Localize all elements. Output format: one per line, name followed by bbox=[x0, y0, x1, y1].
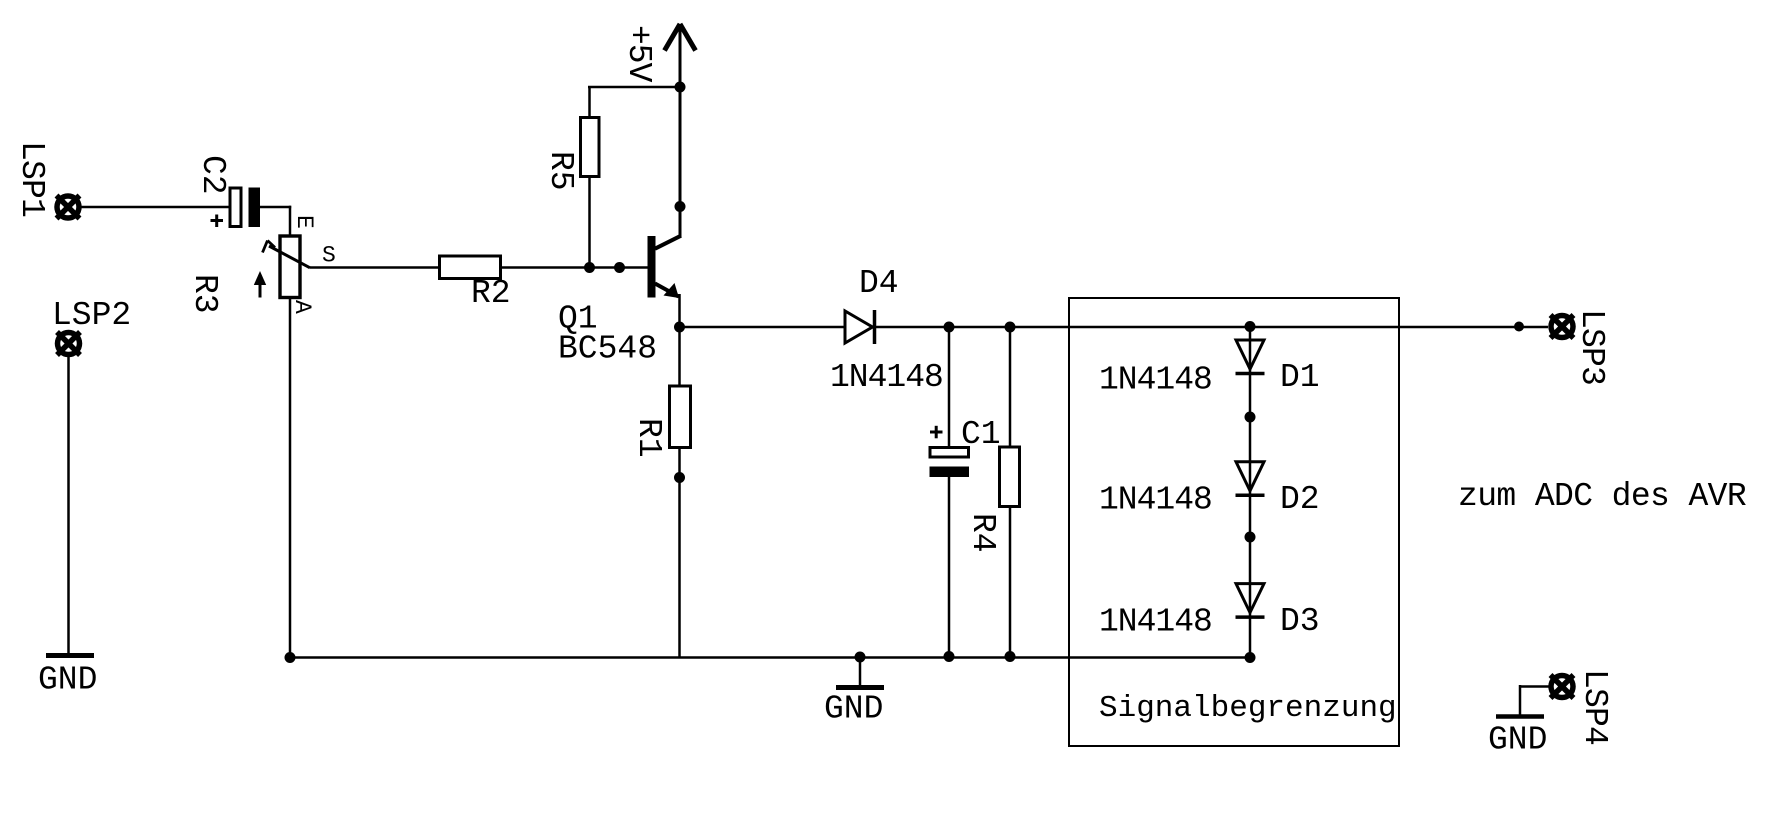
svg-text:1N4148: 1N4148 bbox=[1099, 604, 1212, 641]
wire C1 bottom bbox=[948, 476, 951, 658]
svg-text:GND: GND bbox=[38, 662, 97, 699]
junction dot rail left bbox=[285, 652, 296, 663]
terminal LSP3 bbox=[1551, 315, 1574, 338]
svg-text:zum ADC des AVR: zum ADC des AVR bbox=[1458, 478, 1746, 515]
wire C1 top bbox=[948, 327, 951, 448]
junction dot R4 bottom bbox=[1005, 651, 1016, 662]
wire R1 bottom to rail bbox=[678, 446, 681, 658]
wire C2 to R3 top bbox=[259, 206, 291, 209]
wire R4 bottom bbox=[1009, 505, 1012, 658]
junction dot D2-D3 bbox=[1245, 532, 1256, 543]
plus sign C2 bbox=[211, 215, 224, 228]
junction dot below R1 bbox=[674, 472, 685, 483]
wire node to D4 bbox=[680, 326, 846, 329]
wire D4 to LSP3 bbox=[875, 326, 1548, 329]
svg-text:GND: GND bbox=[1488, 722, 1547, 759]
supply +5V bbox=[665, 24, 696, 51]
svg-text:BC548: BC548 bbox=[558, 331, 657, 368]
junction dot D3 bottom bbox=[1245, 652, 1256, 663]
wire diode chain bbox=[1249, 327, 1252, 658]
svg-text:D3: D3 bbox=[1280, 603, 1320, 640]
wire R3 wiper to R2 bbox=[310, 266, 440, 269]
junction dot GND stub bbox=[855, 652, 866, 663]
junction dot collector bbox=[675, 201, 686, 212]
junction dot R4 top bbox=[1005, 322, 1016, 333]
wire +5V down to Q1 collector bbox=[679, 26, 682, 237]
wire R1 top bbox=[678, 327, 681, 387]
svg-text:D4: D4 bbox=[859, 265, 899, 302]
wire R4 top bbox=[1009, 327, 1012, 448]
junction dot base2 bbox=[614, 262, 625, 273]
ground symbol mid bbox=[836, 657, 884, 688]
junction dot base/R5 bbox=[584, 262, 595, 273]
diode D3 bbox=[1236, 584, 1265, 618]
wire R5 bottom bbox=[588, 176, 591, 268]
junction dot C1 top bbox=[944, 322, 955, 333]
diode D2 bbox=[1236, 462, 1265, 496]
junction dot D1-D2 bbox=[1245, 412, 1256, 423]
ground symbol right bbox=[1496, 714, 1544, 719]
terminal LSP4 bbox=[1551, 675, 1574, 698]
wire R5 top to +5V bbox=[588, 87, 591, 119]
ground symbol left bbox=[46, 653, 94, 658]
diode D1 bbox=[1236, 340, 1265, 374]
svg-text:S: S bbox=[322, 243, 336, 269]
svg-text:1N4148: 1N4148 bbox=[1099, 482, 1212, 519]
capacitor C1 bbox=[930, 448, 970, 478]
svg-text:LSP4: LSP4 bbox=[1576, 669, 1613, 745]
resistor R5 bbox=[581, 118, 600, 177]
svg-text:R1: R1 bbox=[630, 418, 667, 458]
svg-text:C2: C2 bbox=[194, 155, 231, 195]
box Signalbegrenzung bbox=[1069, 298, 1399, 746]
transistor Q1 bbox=[648, 236, 682, 298]
resistor R1 bbox=[670, 386, 691, 448]
wire LSP4 to GND bbox=[1520, 685, 1549, 715]
potentiometer R3 bbox=[263, 236, 311, 298]
wire R2 to Q1 base bbox=[501, 266, 650, 269]
junction dot D1 anode bbox=[1245, 321, 1256, 332]
adjust arrow of R3 bbox=[254, 271, 266, 298]
svg-text:R3: R3 bbox=[186, 274, 223, 314]
ground rail bbox=[290, 656, 1250, 659]
svg-text:+5V: +5V bbox=[620, 25, 657, 83]
svg-text:1N4148: 1N4148 bbox=[1099, 362, 1212, 399]
wire emitter down bbox=[678, 294, 681, 328]
svg-text:LSP3: LSP3 bbox=[1573, 309, 1610, 385]
resistor R4 bbox=[1000, 447, 1020, 507]
wire LSP1 to C2 bbox=[81, 206, 230, 209]
svg-text:C1: C1 bbox=[961, 416, 1001, 453]
svg-text:D1: D1 bbox=[1280, 359, 1320, 396]
svg-text:1N4148: 1N4148 bbox=[830, 359, 943, 396]
terminal LSP1 bbox=[57, 196, 80, 219]
diode D4 bbox=[845, 310, 875, 344]
svg-text:R4: R4 bbox=[964, 513, 1001, 553]
svg-text:Signalbegrenzung: Signalbegrenzung bbox=[1099, 691, 1397, 726]
wire LSP2 to GND bbox=[67, 354, 70, 653]
svg-text:GND: GND bbox=[824, 691, 883, 728]
wire R3 bottom to rail bbox=[289, 296, 292, 658]
svg-text:R2: R2 bbox=[471, 275, 511, 312]
svg-text:A: A bbox=[289, 300, 315, 314]
svg-text:D2: D2 bbox=[1280, 481, 1320, 518]
svg-text:R5: R5 bbox=[542, 151, 579, 191]
capacitor C2 bbox=[230, 188, 260, 228]
junction dot before LSP3 bbox=[1514, 322, 1524, 332]
svg-text:E: E bbox=[291, 215, 317, 229]
svg-text:LSP2: LSP2 bbox=[52, 297, 131, 334]
svg-text:LSP1: LSP1 bbox=[13, 141, 50, 217]
terminal LSP2 bbox=[57, 332, 80, 355]
junction dot C1 bottom bbox=[944, 651, 955, 662]
resistor R2 bbox=[440, 256, 501, 279]
plus sign C1 bbox=[930, 426, 943, 439]
junction dot output node bbox=[674, 322, 685, 333]
junction dot +5V/R5 bbox=[675, 82, 686, 93]
